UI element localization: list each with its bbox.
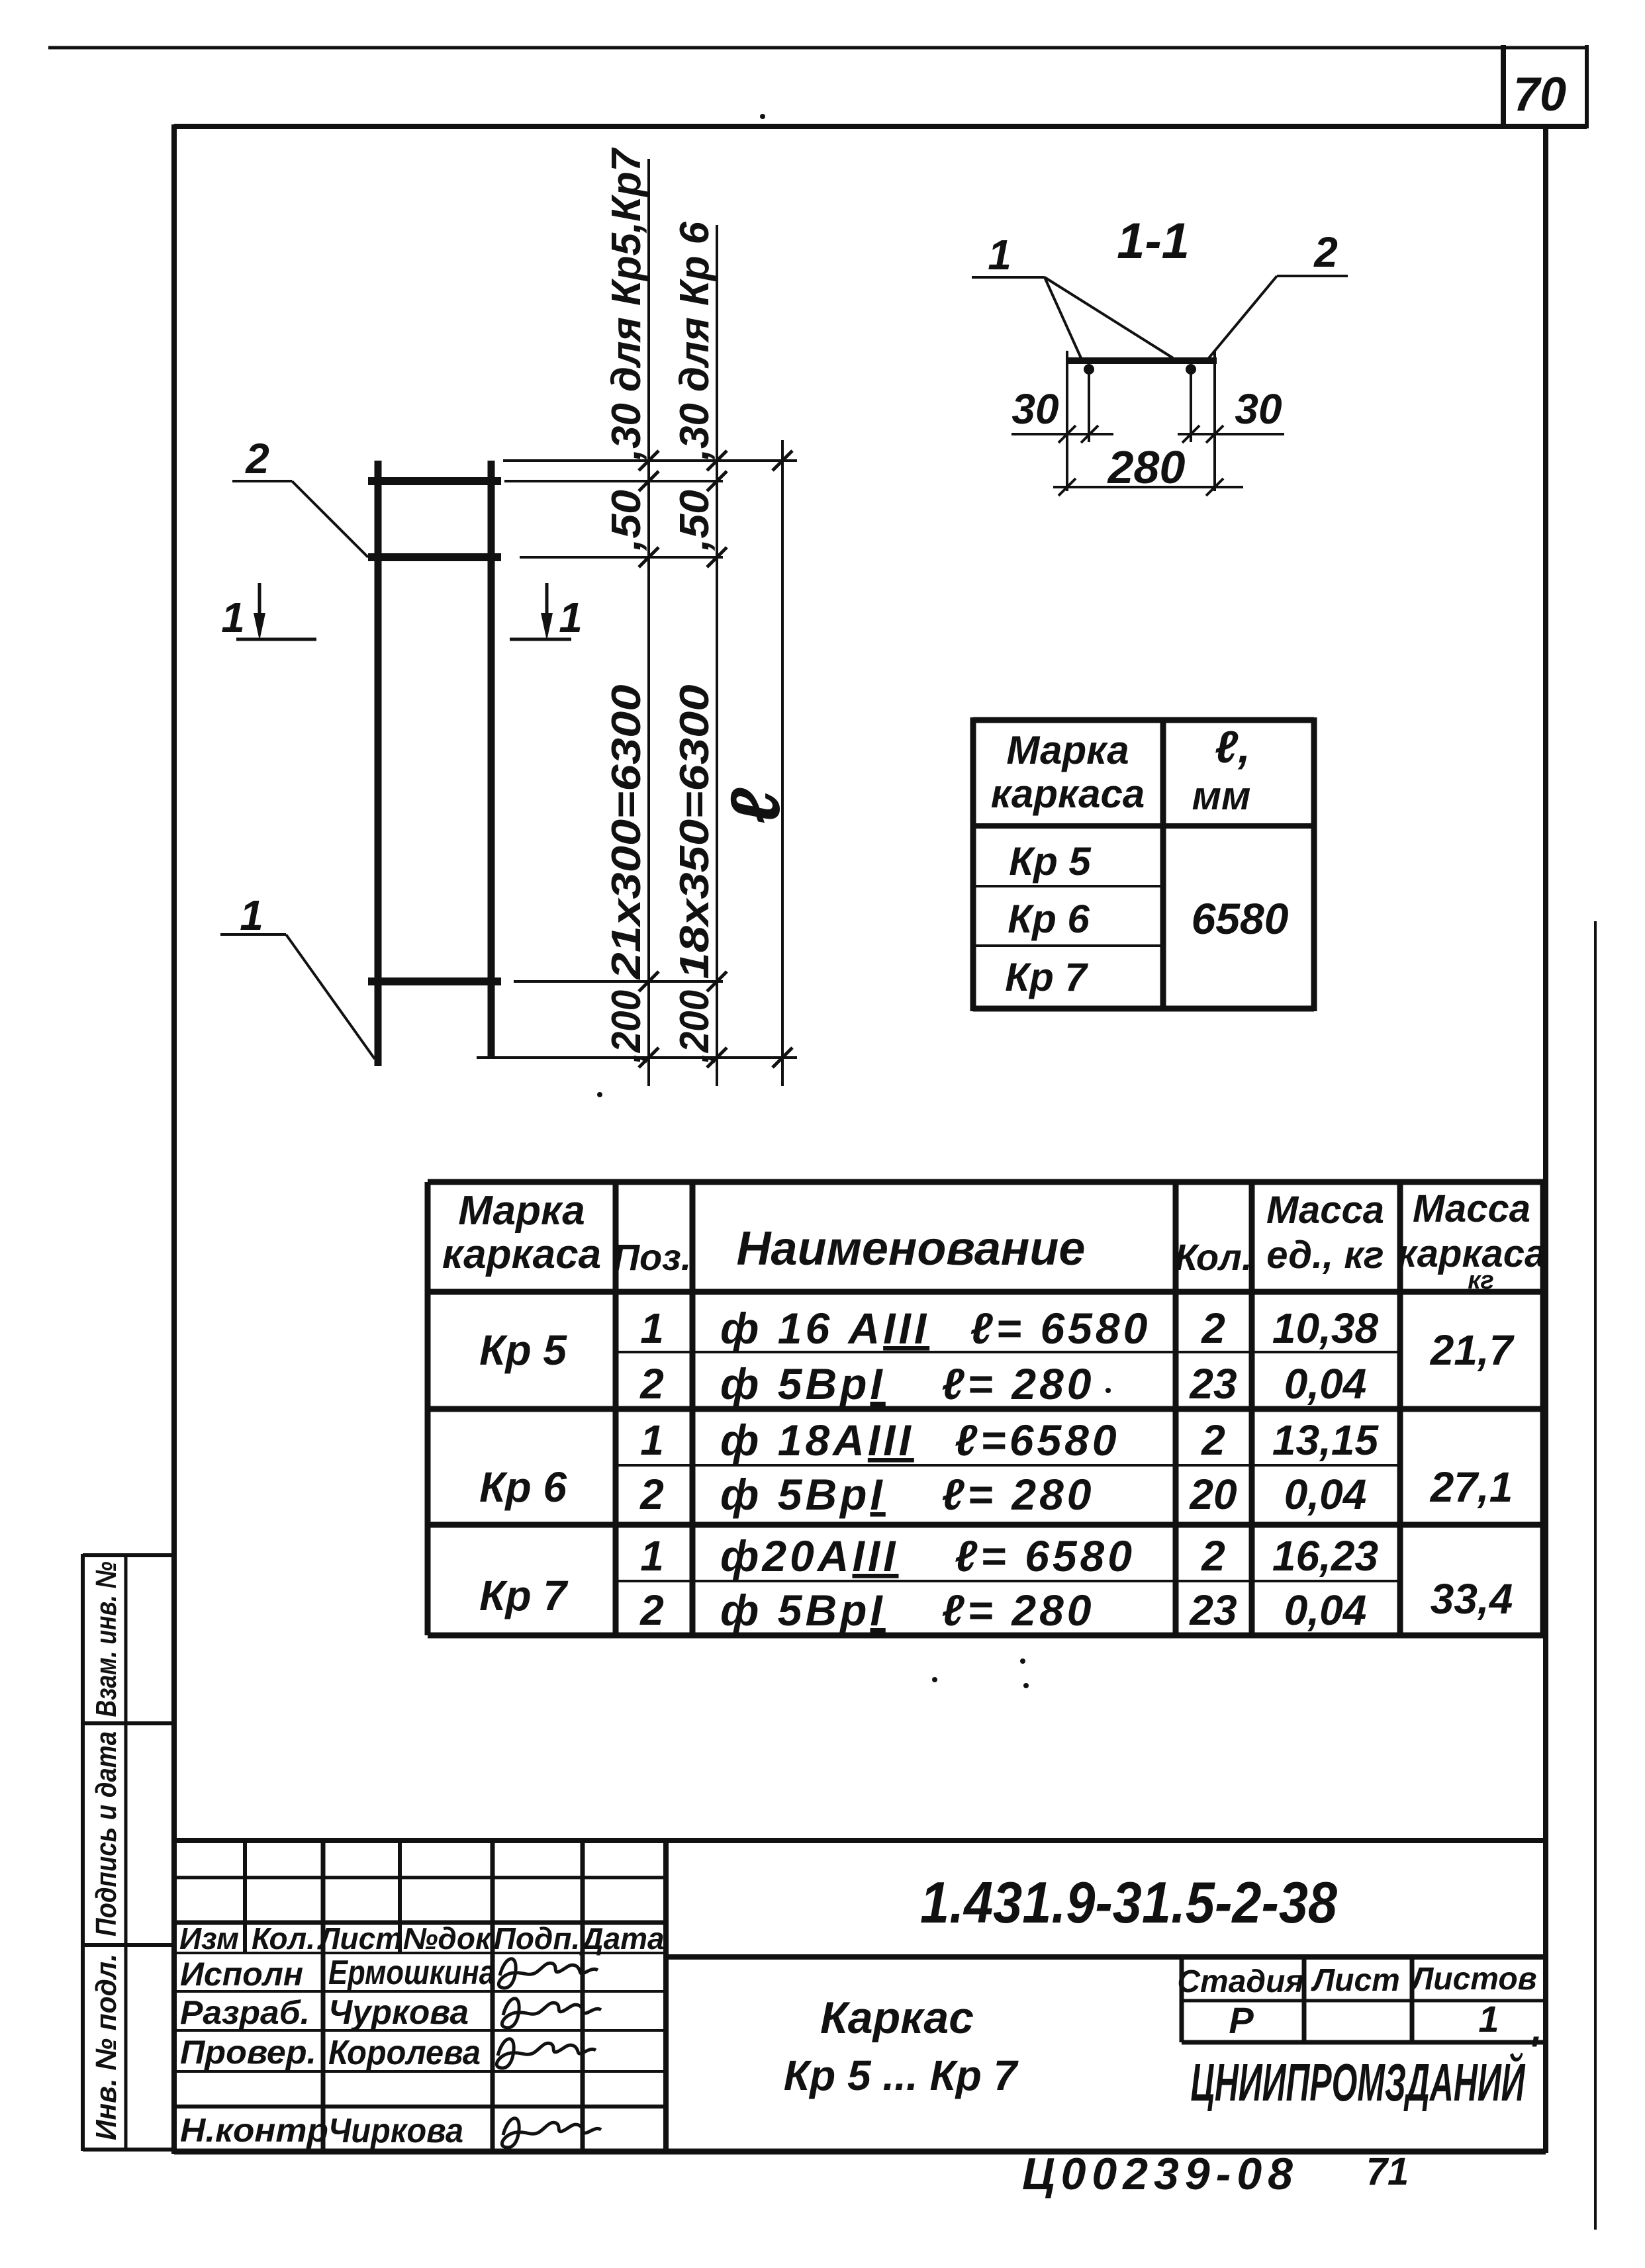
svg-text:Кр 5 ... Кр 7: Кр 5 ... Кр 7 [784,2052,1019,2099]
svg-text:2: 2 [639,1586,664,1634]
svg-text:71: 71 [1366,2150,1409,2193]
svg-text:ЦНИИПРОМЗДАНИЙ: ЦНИИПРОМЗДАНИЙ [1191,2052,1526,2112]
svg-text:Чуркова: Чуркова [328,1993,469,2032]
svg-text:23: 23 [1189,1360,1237,1408]
svg-text:Масса: Масса [1266,1189,1384,1232]
svg-text:Лист: Лист [1311,1963,1400,1998]
svg-text:Масса: Масса [1413,1187,1530,1230]
svg-text:Инв. № подл.: Инв. № подл. [90,1954,122,2140]
svg-text:Кр 5: Кр 5 [479,1326,567,1374]
svg-text:1: 1 [640,1416,664,1464]
svg-text:Ц00239-08: Ц00239-08 [1022,2149,1299,2199]
svg-text:Ермошкина: Ермошкина [328,1954,495,1992]
svg-text:Кол.: Кол. [1175,1236,1252,1278]
svg-text:2: 2 [1201,1304,1225,1352]
svg-text:1: 1 [240,891,263,939]
svg-text:Чиркова: Чиркова [328,2112,463,2150]
svg-text:Кр 7: Кр 7 [479,1572,569,1619]
svg-text:1: 1 [640,1304,664,1352]
svg-text:1: 1 [221,594,245,641]
svg-text:Провер.: Провер. [180,2034,316,2071]
svg-text:Подп.: Подп. [494,1921,581,1956]
svg-text:,30 для Кр5,Кр7: ,30 для Кр5,Кр7 [604,148,649,461]
svg-text:Исполн: Исполн [180,1956,303,1993]
svg-text:23: 23 [1189,1586,1237,1634]
svg-text:Разраб.: Разраб. [180,1994,310,2031]
svg-text:1-1: 1-1 [1117,213,1190,269]
svg-text:Кр 6: Кр 6 [479,1463,567,1511]
svg-text:каркаса: каркаса [442,1232,601,1277]
svg-text:0,04: 0,04 [1284,1360,1367,1408]
svg-text:27,1: 27,1 [1430,1463,1513,1511]
svg-text:ф 5ВрI ℓ= 280: ф 5ВрI ℓ= 280 [720,1586,1095,1635]
svg-text:1.431.9-31.5-2-38: 1.431.9-31.5-2-38 [920,1870,1337,1935]
svg-text:2: 2 [1201,1532,1225,1580]
svg-text:30: 30 [1235,385,1282,433]
svg-text:Марка: Марка [458,1188,585,1234]
svg-text:18х350=6300: 18х350=6300 [672,685,718,979]
svg-text:,50: ,50 [672,490,718,551]
svg-text:21,7: 21,7 [1430,1326,1515,1374]
svg-text:30: 30 [1011,385,1058,433]
svg-text:ед., кг: ед., кг [1266,1234,1384,1277]
svg-text:2: 2 [1201,1416,1225,1464]
svg-text:Изм: Изм [179,1921,239,1956]
svg-text:Королева: Королева [328,2034,481,2072]
svg-text:1: 1 [988,231,1011,279]
svg-text:Кол.: Кол. [252,1921,315,1956]
svg-text:ф 5ВрI ℓ= 280: ф 5ВрI ℓ= 280 [720,1359,1095,1408]
svg-text:ф 16 АIII ℓ= 6580: ф 16 АIII ℓ= 6580 [720,1304,1151,1353]
svg-text:0,04: 0,04 [1284,1586,1367,1634]
svg-text:ф 18АIII ℓ=6580: ф 18АIII ℓ=6580 [720,1416,1120,1465]
svg-text:2: 2 [639,1360,664,1408]
svg-text:Н.контр: Н.контр [180,2112,328,2149]
svg-text:,30 для Кр 6: ,30 для Кр 6 [672,221,718,460]
svg-text:10,38: 10,38 [1272,1304,1379,1352]
svg-text:1: 1 [1478,1998,1499,2040]
svg-text:13,15: 13,15 [1272,1416,1380,1464]
svg-text:Кр 5: Кр 5 [1009,839,1092,884]
svg-text:Стадия: Стадия [1177,1964,1303,1999]
svg-text:280: 280 [1107,441,1186,493]
svg-text:6580: 6580 [1192,894,1289,943]
svg-text:,200: ,200 [672,990,718,1064]
svg-text:№док: №док [403,1921,493,1956]
svg-text:2: 2 [245,435,269,482]
svg-text:Дата: Дата [579,1921,664,1956]
svg-text:,200: ,200 [604,990,649,1064]
svg-text:Кр 6: Кр 6 [1008,897,1090,941]
svg-text:20: 20 [1189,1471,1237,1518]
svg-text:Взам. инв. №: Взам. инв. № [90,1562,122,1717]
svg-text:70: 70 [1513,68,1566,121]
svg-text:Каркас: Каркас [820,1993,974,2043]
svg-text:16,23: 16,23 [1272,1532,1378,1580]
svg-text:33,4: 33,4 [1431,1575,1513,1623]
svg-text:2: 2 [1313,228,1338,276]
svg-text:1: 1 [640,1532,664,1580]
svg-text:Подпись и дата: Подпись и дата [90,1731,122,1936]
svg-text:ф20АIII ℓ= 6580: ф20АIII ℓ= 6580 [720,1531,1135,1580]
svg-text:Марка: Марка [1006,728,1129,772]
svg-text:мм: мм [1192,774,1251,818]
svg-text:21х300=6300: 21х300=6300 [604,685,649,980]
svg-text:,50: ,50 [604,490,649,551]
svg-text:ℓ,: ℓ, [1215,722,1250,772]
svg-text:Листов: Листов [1409,1962,1536,1997]
svg-text:Наименование: Наименование [737,1222,1086,1275]
svg-text:каркаса: каркаса [991,772,1145,816]
svg-text:кг: кг [1468,1267,1494,1294]
svg-text:0,04: 0,04 [1284,1471,1367,1518]
svg-text:Поз.: Поз. [613,1236,692,1278]
svg-text:Р: Р [1229,1999,1254,2041]
svg-text:': ' [1528,2028,1539,2073]
svg-text:Кр 7: Кр 7 [1005,955,1088,999]
svg-text:1: 1 [559,594,583,641]
svg-text:2: 2 [639,1471,664,1518]
svg-text:ф 5ВрI ℓ= 280: ф 5ВрI ℓ= 280 [720,1470,1095,1519]
svg-text:Лист: Лист [317,1921,402,1956]
svg-text:ℓ: ℓ [717,788,794,824]
